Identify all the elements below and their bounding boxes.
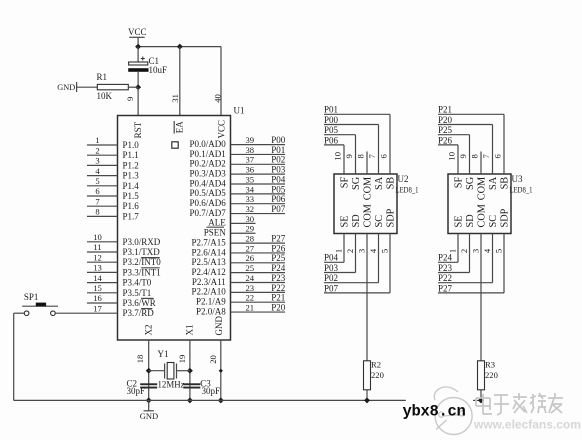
svg-text:R3: R3 [485, 360, 495, 370]
pin 16 P3.6/WR [87, 293, 156, 308]
svg-text:31: 31 [170, 94, 180, 103]
svg-text:SD: SD [465, 214, 476, 228]
U3 pin number 3 bottom [470, 249, 480, 253]
net P04 [271, 174, 286, 184]
svg-text:P02: P02 [271, 155, 285, 165]
svg-text:9: 9 [458, 154, 468, 158]
pin number 9 [125, 97, 135, 101]
pin number 18 [135, 355, 145, 364]
net P20 [271, 302, 286, 312]
net P06 [271, 194, 286, 204]
svg-text:P27: P27 [438, 283, 453, 293]
svg-text:U1: U1 [234, 106, 245, 116]
svg-text:P03: P03 [324, 263, 339, 273]
svg-text:4: 4 [95, 166, 100, 176]
pin 5 P1.4 [87, 176, 139, 191]
resistor R3 220 [478, 360, 498, 390]
wire SP1 to ground rail [14, 313, 25, 400]
svg-text:P0.1/AD1: P0.1/AD1 [190, 149, 226, 159]
U3 pin number 6 top [493, 153, 503, 158]
net P22 wire to U3 pin 4 [438, 234, 493, 284]
U2 pin number 6 top [379, 153, 389, 158]
watermark circle logo [434, 387, 472, 435]
pin 12 P3.2/INT0 [87, 252, 161, 267]
svg-text:U3: U3 [512, 174, 523, 184]
U3 pin name SD bottom [465, 214, 476, 228]
svg-text:SE: SE [454, 215, 465, 227]
ground GND symbol bottom [140, 400, 158, 420]
pin 4 P1.3 [87, 166, 139, 181]
wire GND to R1 [77, 86, 98, 88]
wire pin19 X1 column [189, 340, 191, 400]
svg-text:X1: X1 [185, 325, 195, 336]
pin 13 P3.3/INT1 [87, 263, 161, 278]
svg-text:220: 220 [371, 370, 384, 380]
junction pin20 rail [218, 397, 224, 403]
svg-text:3: 3 [356, 249, 366, 253]
LED display U3 LED8_1 [448, 174, 533, 234]
net P26 [271, 243, 286, 253]
svg-text:28: 28 [246, 234, 255, 244]
U3 pin number 1 bottom [447, 249, 457, 253]
svg-text:SF: SF [340, 177, 351, 189]
svg-text:P27: P27 [271, 234, 286, 244]
svg-text:6: 6 [493, 153, 503, 158]
net P22 [271, 283, 285, 293]
wire ground rail [14, 399, 481, 401]
pin 6 P1.5 [87, 186, 139, 201]
U2 pin number 8 top [356, 154, 366, 158]
net P24 [271, 263, 286, 273]
op IC U1 AT89C51 box [118, 106, 245, 341]
svg-text:P3.7/RD: P3.7/RD [123, 308, 155, 318]
U3 pin name SC bottom [488, 215, 499, 228]
svg-text:P26: P26 [271, 243, 286, 253]
svg-text:P0.4/AD4: P0.4/AD4 [190, 178, 227, 188]
svg-text:P23: P23 [271, 273, 286, 283]
svg-text:P00: P00 [271, 135, 286, 145]
svg-text:16: 16 [93, 293, 102, 303]
pin 14 P3.4/T0 [87, 273, 152, 288]
pin 37 P0.2/AD2 [190, 155, 285, 169]
svg-text:GND: GND [214, 316, 224, 336]
svg-text:SC: SC [488, 215, 499, 228]
svg-text:Y1: Y1 [158, 349, 169, 359]
svg-text:P1.3: P1.3 [123, 171, 140, 181]
watermark www.elecfans.com [473, 418, 581, 432]
svg-text:P25: P25 [438, 125, 453, 135]
svg-text:P1.5: P1.5 [123, 191, 140, 201]
U3 pin 8 COM top stub [480, 152, 482, 175]
U2 pin name SE bottom [340, 215, 351, 227]
svg-text:P0.5/AD5: P0.5/AD5 [190, 188, 227, 198]
pin number 40 [212, 94, 222, 103]
svg-text:P24: P24 [438, 253, 453, 263]
svg-text:36: 36 [246, 165, 255, 175]
U3 pin number 4 bottom [482, 248, 492, 253]
pin name X2 [143, 325, 153, 336]
svg-text:7: 7 [95, 196, 100, 206]
svg-text:www.elecfans.com: www.elecfans.com [473, 418, 581, 432]
svg-text:6: 6 [379, 153, 389, 158]
value label 12MHz [158, 379, 185, 389]
svg-text:P02: P02 [324, 273, 338, 283]
svg-text:P06: P06 [271, 194, 286, 204]
svg-text:SC: SC [374, 215, 385, 228]
svg-text:COM: COM [477, 177, 488, 200]
U2 pin number 7 top [367, 153, 377, 158]
svg-text:P1.4: P1.4 [123, 181, 140, 191]
svg-text:P01: P01 [271, 145, 285, 155]
svg-text:21: 21 [246, 302, 255, 312]
svg-text:35: 35 [246, 174, 255, 184]
svg-text:P07: P07 [271, 204, 286, 214]
pin 27 P2.6/A14 [192, 243, 285, 257]
svg-text:9: 9 [344, 154, 354, 158]
wire pin18 X2 column [148, 340, 150, 400]
svg-text:P2.2/A10: P2.2/A10 [192, 287, 227, 297]
pin 3 P1.2 [87, 156, 139, 171]
svg-text:P1.1: P1.1 [123, 150, 139, 160]
svg-text:30pF: 30pF [127, 386, 146, 396]
svg-text:13: 13 [93, 263, 102, 273]
svg-text:14: 14 [93, 273, 102, 283]
wire R3 to rail [480, 390, 482, 401]
U2 pin name SD bottom [351, 214, 362, 228]
net P02 wire to U2 pin 4 [324, 234, 379, 284]
net P07 [271, 204, 286, 214]
svg-text:12: 12 [93, 252, 102, 262]
svg-text:ybx8.cn: ybx8.cn [403, 403, 466, 421]
pin 39 P0.0/AD0 [190, 135, 285, 149]
svg-text:P24: P24 [271, 263, 286, 273]
svg-text:P3.6/WR: P3.6/WR [123, 298, 156, 308]
svg-text:7: 7 [481, 153, 491, 158]
U3 pin number 7 top [481, 153, 491, 158]
svg-text:3: 3 [470, 249, 480, 253]
power symbol VCC [128, 27, 147, 46]
pin number 19 [177, 355, 187, 364]
svg-text:P0.7/AD7: P0.7/AD7 [190, 208, 227, 218]
pin 1 P1.0 [87, 135, 139, 150]
pin 15 P3.5/T1 [87, 283, 151, 298]
svg-text:220: 220 [485, 370, 498, 380]
svg-text:SD: SD [351, 214, 362, 228]
svg-text:4: 4 [482, 248, 492, 253]
svg-text:P3.3/INT1: P3.3/INT1 [123, 267, 161, 277]
svg-text:P22: P22 [271, 283, 285, 293]
svg-text:P06: P06 [324, 135, 339, 145]
U3 pin name SA top [488, 176, 499, 190]
svg-text:6: 6 [95, 186, 100, 196]
net P24 wire to U3 pin 1 [438, 234, 458, 263]
svg-text:SA: SA [374, 176, 385, 190]
svg-text:P04: P04 [271, 174, 286, 184]
svg-text:12MHz: 12MHz [158, 379, 185, 389]
svg-text:27: 27 [246, 243, 255, 253]
svg-text:P0.6/AD6: P0.6/AD6 [190, 198, 227, 208]
svg-text:RST: RST [133, 121, 143, 138]
net P20 wire to U3 pin 7 [438, 115, 493, 174]
U2 pin number 1 bottom [333, 249, 343, 253]
svg-text:30pF: 30pF [202, 386, 221, 396]
net P03 wire to U2 pin 2 [324, 234, 356, 273]
svg-text:P01: P01 [324, 105, 338, 115]
svg-text:P20: P20 [438, 115, 453, 125]
svg-text:LED8_1: LED8_1 [510, 186, 533, 195]
svg-text:25: 25 [246, 263, 255, 273]
svg-text:VCC: VCC [216, 120, 226, 139]
U3 pin name COM bottom [477, 204, 488, 227]
svg-text:SF: SF [454, 177, 465, 189]
pin 26 P2.5/A13 [192, 253, 285, 267]
pin 11 P3.1/TXD [87, 242, 160, 257]
svg-text:30: 30 [246, 214, 255, 224]
resistor R1 10K [97, 72, 129, 101]
U2 pin name SC bottom [374, 215, 385, 228]
junction R2 rail [364, 397, 370, 403]
U3 pin number 5 bottom [493, 249, 503, 253]
U2 pin number 9 top [344, 154, 354, 158]
net P06 wire to U2 pin 10 [324, 135, 344, 174]
svg-text:COM: COM [363, 204, 374, 227]
junction C3 rail [187, 397, 193, 403]
svg-text:P00: P00 [324, 115, 339, 125]
watermark text dianzifashaoyou [476, 393, 563, 415]
svg-text:R2: R2 [371, 360, 381, 370]
svg-text:P23: P23 [438, 263, 453, 273]
U3 pin name SF top [454, 177, 465, 189]
wire pin20 GND column [220, 340, 222, 400]
pin 24 P2.3/A11 [192, 273, 285, 287]
net P01 wire to U2 pin 6 [324, 105, 390, 174]
U3 pin name SB top [500, 177, 511, 190]
svg-text:19: 19 [177, 355, 187, 364]
net P05 wire to U2 pin 9 [324, 125, 356, 174]
U3 pin number 9 top [458, 154, 468, 158]
svg-text:39: 39 [246, 135, 255, 145]
svg-text:26: 26 [246, 253, 255, 263]
svg-text:SA: SA [488, 176, 499, 190]
wire R2 to rail [366, 390, 368, 401]
svg-text:10uF: 10uF [149, 65, 168, 75]
pin 35 P0.4/AD4 [190, 174, 285, 188]
pin 25 P2.4/A12 [192, 263, 285, 277]
net P21 wire to U3 pin 6 [438, 105, 504, 174]
svg-text:GND: GND [140, 411, 158, 421]
net P25 [271, 253, 286, 263]
U3 pin name COM top [477, 177, 488, 200]
svg-text:P0.3/AD3: P0.3/AD3 [190, 168, 227, 178]
ground GND at R1 [57, 82, 76, 92]
svg-text:P21: P21 [438, 105, 452, 115]
svg-text:P26: P26 [438, 135, 453, 145]
wire R1 to node [128, 86, 138, 88]
U2 pin number 5 bottom [379, 249, 389, 253]
svg-text:P1.2: P1.2 [123, 160, 139, 170]
svg-text:SE: SE [340, 215, 351, 227]
U2 pin name SB top [386, 177, 397, 190]
svg-text:5: 5 [379, 249, 389, 253]
svg-text:LED8_1: LED8_1 [396, 186, 419, 195]
pin 34 P0.5/AD5 [190, 184, 285, 198]
pin 22 P2.1/A9 [196, 293, 285, 307]
resistor R2 220 [364, 360, 384, 390]
pin 36 P0.3/AD3 [190, 165, 285, 179]
svg-text:COM: COM [477, 204, 488, 227]
svg-text:8: 8 [95, 207, 99, 217]
pin 28 P2.7/A15 [192, 234, 285, 248]
svg-text:P25: P25 [271, 253, 286, 263]
wire node to pin 9 [137, 87, 139, 115]
U2 pin name SG top [351, 176, 362, 190]
U2 pin name COM top [363, 177, 374, 200]
pin number 20 [208, 355, 218, 364]
U2 pin number 4 bottom [368, 248, 378, 253]
svg-text:SB: SB [500, 177, 511, 190]
wire VCC junction down to C1 [137, 47, 139, 62]
switch SP1 [22, 292, 58, 316]
svg-text:34: 34 [246, 184, 255, 194]
svg-text:1: 1 [95, 135, 99, 145]
wire SP1 to pin 17 [55, 312, 87, 314]
net P01 [271, 145, 285, 155]
net P07 wire to U2 pin 5 [324, 234, 390, 294]
svg-text:SDP: SDP [386, 208, 397, 227]
svg-text:9: 9 [125, 97, 135, 101]
svg-text:2: 2 [345, 249, 355, 253]
svg-text:P2.5/A13: P2.5/A13 [192, 257, 227, 267]
net P04 wire to U2 pin 1 [324, 234, 344, 263]
U2 pin name SDP bottom [386, 208, 397, 227]
svg-text:22: 22 [246, 293, 255, 303]
net P27 [271, 234, 286, 244]
svg-text:P1.7: P1.7 [123, 211, 140, 221]
pin name EA with overline [174, 121, 184, 134]
svg-text:P2.6/A14: P2.6/A14 [192, 247, 227, 257]
wire pin 31 EA [179, 47, 181, 116]
svg-text:P0.2/AD2: P0.2/AD2 [190, 159, 226, 169]
pin 7 P1.6 [87, 196, 139, 211]
svg-text:P0.0/AD0: P0.0/AD0 [190, 139, 227, 149]
svg-text:P3.5/T1: P3.5/T1 [123, 288, 152, 298]
pin name GND (pin20) [214, 316, 224, 336]
svg-text:20: 20 [208, 355, 218, 364]
junction pin20 segment [219, 369, 223, 373]
svg-text:3: 3 [95, 156, 99, 166]
net P25 wire to U3 pin 9 [438, 125, 470, 174]
svg-text:7: 7 [367, 153, 377, 158]
wire C1 to R1 node [137, 72, 139, 87]
svg-text:R1: R1 [97, 72, 108, 82]
svg-text:SB: SB [386, 177, 397, 190]
svg-text:SG: SG [351, 176, 362, 190]
svg-text:1: 1 [447, 249, 457, 253]
junction EA column node [177, 44, 183, 50]
EA marker square [172, 142, 178, 148]
junction VCC-C1 node [135, 44, 141, 50]
net P00 [271, 135, 286, 145]
U2 pin number 3 bottom [356, 249, 366, 253]
svg-text:2: 2 [95, 145, 99, 155]
svg-text:2: 2 [459, 249, 469, 253]
svg-text:10: 10 [93, 232, 102, 242]
svg-text:GND: GND [57, 83, 75, 92]
svg-text:24: 24 [246, 273, 255, 283]
pin number 31 [170, 94, 180, 103]
svg-text:P3.2/INT0: P3.2/INT0 [123, 257, 162, 267]
U3 pin name SDP bottom [500, 208, 511, 227]
net P26 wire to U3 pin 10 [438, 135, 458, 174]
svg-text:P04: P04 [324, 253, 339, 263]
svg-text:P2.7/A15: P2.7/A15 [192, 237, 227, 247]
svg-text:37: 37 [246, 155, 255, 165]
junction R3 rail [478, 397, 484, 403]
svg-text:38: 38 [246, 145, 255, 155]
pin name RST [133, 121, 143, 138]
LED display U2 LED8_1 [334, 174, 419, 234]
net P00 wire to U2 pin 7 [324, 115, 379, 174]
capacitor C1 10uF polarized [128, 56, 167, 75]
U2 pin 8 COM top stub [366, 152, 368, 175]
net P27 wire to U3 pin 5 [438, 234, 504, 294]
net P03 [271, 165, 286, 175]
pin 33 P0.6/AD6 [190, 194, 285, 208]
U3 pin name SG top [465, 176, 476, 190]
svg-text:P05: P05 [324, 125, 339, 135]
pin name X1 [185, 325, 195, 336]
capacitor C2 30pF [127, 378, 158, 396]
svg-text:EA: EA [174, 121, 184, 133]
svg-text:8: 8 [356, 154, 366, 158]
junction X1 crystal [187, 368, 193, 374]
wire U3 COM to R3 [480, 234, 482, 361]
svg-text:P1.0: P1.0 [123, 140, 140, 150]
svg-text:8: 8 [470, 154, 480, 158]
U3 pin number 8 top [470, 154, 480, 158]
pin 21 P2.0/A8 [196, 302, 285, 316]
svg-text:18: 18 [135, 355, 145, 364]
pin 10 P3.0/RXD [87, 232, 161, 247]
svg-text:X2: X2 [143, 325, 153, 336]
svg-text:29: 29 [246, 224, 255, 234]
U3 pin name SE bottom [454, 215, 465, 227]
wire VCC rail to pin40 [138, 47, 221, 116]
svg-text:33: 33 [246, 194, 255, 204]
svg-text:23: 23 [246, 283, 255, 293]
svg-text:PSEN: PSEN [204, 228, 227, 238]
wire U2 COM to R2 [366, 234, 368, 361]
pin 17 P3.7/RD [87, 303, 154, 318]
net P23 [271, 273, 286, 283]
pin 2 P1.1 [87, 145, 139, 160]
U2 pin name SA top [374, 176, 385, 190]
svg-text:P21: P21 [271, 293, 285, 303]
U3 pin number 2 bottom [459, 249, 469, 253]
svg-text:P1.6: P1.6 [123, 201, 140, 211]
svg-text:ALE: ALE [208, 218, 226, 228]
svg-text:SDP: SDP [500, 208, 511, 227]
svg-text:SP1: SP1 [24, 292, 39, 302]
junction R1 / RST node [135, 84, 141, 90]
svg-text:P3.0/RXD: P3.0/RXD [123, 237, 161, 247]
svg-text:32: 32 [246, 204, 255, 214]
svg-text:U2: U2 [398, 174, 409, 184]
svg-text:P3.4/T0: P3.4/T0 [123, 278, 152, 288]
svg-text:P07: P07 [324, 283, 339, 293]
capacitor C3 30pF [183, 378, 220, 396]
svg-text:1: 1 [333, 249, 343, 253]
